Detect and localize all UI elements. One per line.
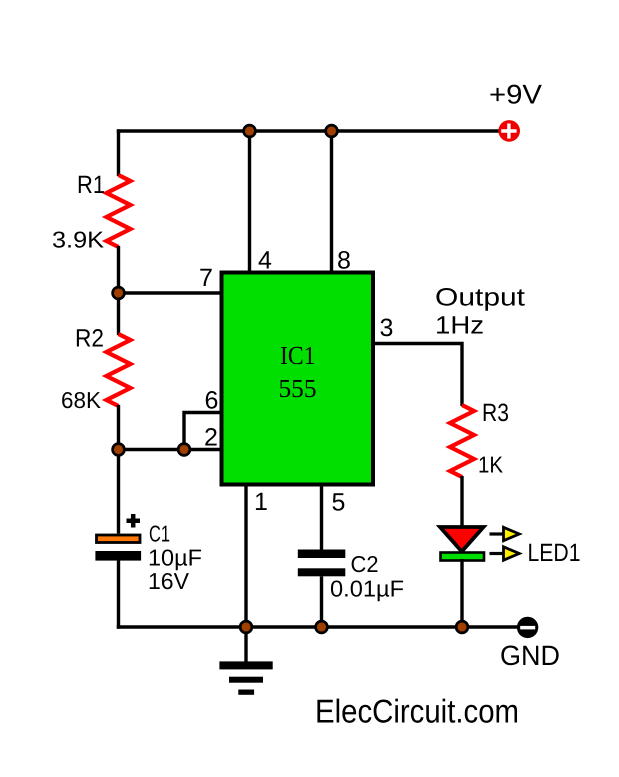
svg-text:2: 2 — [204, 424, 218, 452]
wire pin 1 vertical — [244, 483, 247, 627]
svg-text:C1: C1 — [149, 521, 170, 547]
svg-text:R3: R3 — [482, 399, 509, 427]
svg-text:C2: C2 — [351, 551, 379, 577]
resistor R3 — [450, 405, 474, 477]
junction pin6 to pin2 — [178, 444, 190, 456]
svg-text:7: 7 — [199, 264, 213, 292]
LED LED1 cathode bar — [441, 553, 485, 561]
wire pin 5 vertical — [320, 483, 323, 550]
resistor R1 — [107, 175, 131, 247]
svg-text:ElecCircuit.com: ElecCircuit.com — [315, 693, 519, 730]
svg-text:LED1: LED1 — [528, 539, 581, 567]
ground symbol bar 2 — [229, 677, 263, 683]
svg-text:0.01µF: 0.01µF — [330, 576, 404, 602]
junction pin7 node — [113, 287, 125, 299]
svg-text:+9V: +9V — [489, 80, 542, 110]
svg-text:6: 6 — [205, 387, 219, 415]
ground symbol bar 1 — [219, 661, 272, 669]
junction bottom C2 — [316, 621, 328, 633]
svg-text:1K: 1K — [478, 452, 504, 478]
svg-text:10µF: 10µF — [148, 545, 202, 571]
svg-text:R2: R2 — [75, 325, 104, 353]
capacitor C2 top plate — [298, 550, 346, 559]
LED LED1 triangle — [440, 527, 484, 552]
wire pin 6 bend — [184, 413, 222, 450]
ground terminal GND — [517, 617, 538, 638]
wire C1 to bottom rail — [117, 561, 120, 629]
svg-text:Output: Output — [435, 284, 525, 312]
wire bottom rail — [117, 625, 519, 628]
op-amp / timer IC1 555 body — [222, 273, 374, 485]
svg-text:3: 3 — [380, 314, 394, 342]
wire pin 8 vertical — [330, 131, 333, 273]
svg-text:8: 8 — [337, 247, 351, 275]
junction left rail / pin2 — [113, 444, 125, 456]
wire pin 4 vertical — [248, 131, 251, 273]
wire pin 7 horizontal — [119, 291, 223, 294]
capacitor C2 bottom plate — [298, 568, 346, 576]
ground symbol bar 3 — [238, 690, 254, 695]
capacitor C1 positive plate — [97, 535, 141, 543]
wire C2 to bottom rail — [320, 576, 323, 627]
junction bottom pin1 — [240, 621, 252, 633]
wire pin 3 output bend — [374, 344, 462, 407]
ground symbol stub — [244, 627, 247, 662]
capacitor C1 plus sign — [127, 514, 141, 528]
svg-text:R1: R1 — [77, 171, 105, 199]
junction top rail pin8 — [326, 125, 338, 137]
svg-text:4: 4 — [258, 247, 272, 275]
capacitor C1 negative plate — [95, 551, 141, 561]
svg-text:1: 1 — [254, 488, 268, 516]
wire left rail between R1 and R2 — [117, 246, 120, 335]
wire LED to bottom rail — [460, 559, 463, 627]
wire R3 to LED — [460, 476, 463, 529]
power terminal +9V — [498, 120, 520, 142]
resistor R2 — [107, 334, 131, 406]
svg-text:5: 5 — [332, 489, 346, 517]
svg-text:GND: GND — [500, 640, 560, 671]
LED arrow 1 — [490, 532, 505, 535]
wire left rail top segment — [117, 129, 120, 176]
wire top rail (+9V rail) — [117, 129, 500, 132]
svg-text:68K: 68K — [61, 387, 102, 413]
wire pin 2 horizontal — [119, 448, 223, 451]
wire left rail between R2 and C1 — [117, 405, 120, 534]
junction top rail pin4 — [244, 125, 256, 137]
LED arrow 2 — [490, 552, 505, 555]
svg-text:16V: 16V — [148, 568, 190, 594]
svg-text:1Hz: 1Hz — [435, 312, 484, 340]
svg-text:IC1: IC1 — [280, 341, 316, 370]
svg-text:3.9K: 3.9K — [52, 227, 105, 253]
junction bottom LED — [456, 621, 468, 633]
svg-text:555: 555 — [279, 374, 317, 403]
